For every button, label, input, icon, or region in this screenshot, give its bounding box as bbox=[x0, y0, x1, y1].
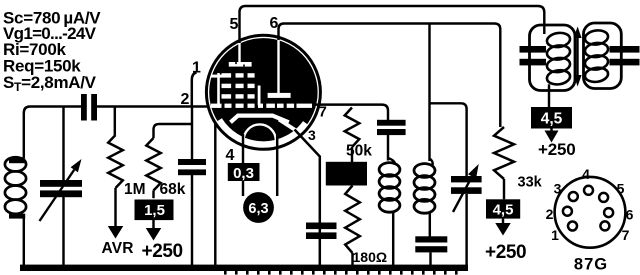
svg-text:1,5: 1,5 bbox=[144, 202, 165, 219]
svg-text:3: 3 bbox=[554, 181, 562, 197]
svg-text:87G: 87G bbox=[574, 256, 608, 274]
svg-text:5: 5 bbox=[230, 16, 239, 33]
svg-text:4,5: 4,5 bbox=[541, 111, 563, 128]
svg-text:7: 7 bbox=[319, 104, 327, 121]
svg-text:68k: 68k bbox=[160, 181, 186, 198]
svg-text:+250: +250 bbox=[485, 242, 526, 263]
svg-text:1: 1 bbox=[551, 227, 559, 243]
svg-text:2: 2 bbox=[546, 206, 554, 222]
svg-text:3: 3 bbox=[308, 127, 316, 143]
svg-text:2: 2 bbox=[181, 91, 190, 108]
svg-text:+250: +250 bbox=[142, 241, 183, 262]
svg-text:6,3: 6,3 bbox=[248, 201, 268, 217]
svg-text:4,5: 4,5 bbox=[493, 202, 514, 219]
svg-text:5: 5 bbox=[617, 181, 625, 197]
svg-text:6: 6 bbox=[626, 207, 634, 223]
svg-text:1M: 1M bbox=[124, 181, 146, 198]
svg-text:7: 7 bbox=[622, 227, 630, 243]
svg-text:50k: 50k bbox=[346, 143, 372, 160]
svg-text:+250: +250 bbox=[538, 140, 576, 159]
svg-text:6: 6 bbox=[270, 15, 279, 32]
svg-text:180Ω: 180Ω bbox=[353, 249, 388, 265]
svg-text:33k: 33k bbox=[518, 175, 543, 191]
svg-text:1: 1 bbox=[192, 60, 201, 77]
svg-text:AVR: AVR bbox=[102, 240, 134, 257]
svg-text:4: 4 bbox=[226, 147, 235, 164]
svg-text:0,3: 0,3 bbox=[233, 165, 254, 182]
svg-text:4: 4 bbox=[582, 166, 590, 182]
